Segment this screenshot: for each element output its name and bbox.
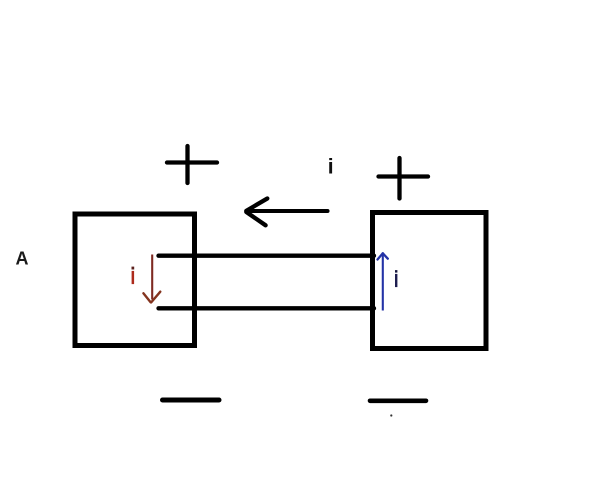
wire top (between boxes)	[159, 254, 375, 258]
label i (left current, red)	[132, 267, 135, 285]
svg-text:A: A	[16, 249, 29, 269]
current arrow i in right box (blue, pointing up)	[378, 253, 388, 310]
minus terminal of left element	[163, 398, 220, 403]
label A (name of left element)	[16, 249, 29, 269]
svg-text:i: i	[328, 156, 334, 179]
element box B (right)	[373, 213, 487, 349]
element box A (left)	[75, 214, 195, 346]
label i (right current, blue)	[395, 270, 397, 287]
wire bottom (between boxes)	[159, 306, 375, 310]
stray dot below right minus	[390, 414, 392, 416]
current arrow i in left box (red, pointing down)	[143, 255, 160, 303]
current arrow i (middle, pointing left)	[246, 199, 327, 226]
plus terminal of right element	[379, 158, 429, 199]
minus terminal of right element	[370, 398, 426, 403]
label i (middle current, black)	[328, 156, 334, 179]
plus terminal of left element	[167, 146, 217, 183]
